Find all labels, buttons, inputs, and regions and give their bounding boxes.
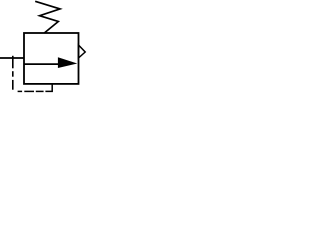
relief vent triangle: [79, 45, 86, 58]
pilot line bottom dash 4 with riser corner: [45, 84, 52, 92]
pilot line bottom dash 3: [36, 90, 44, 92]
pilot line bottom dash 1: [18, 90, 23, 92]
inlet port line: [0, 57, 25, 59]
pilot line vertical dash 3: [12, 80, 14, 90]
pilot line bottom dash 2: [24, 90, 34, 92]
pilot line vertical dash 2: [12, 71, 14, 77]
flow arrow head: [58, 57, 77, 68]
pilot line vertical segment 1: [12, 56, 14, 69]
flow arrow shaft: [24, 63, 60, 65]
pressure regulator valve body V1: [24, 33, 79, 84]
adjustment spring: [35, 1, 60, 33]
